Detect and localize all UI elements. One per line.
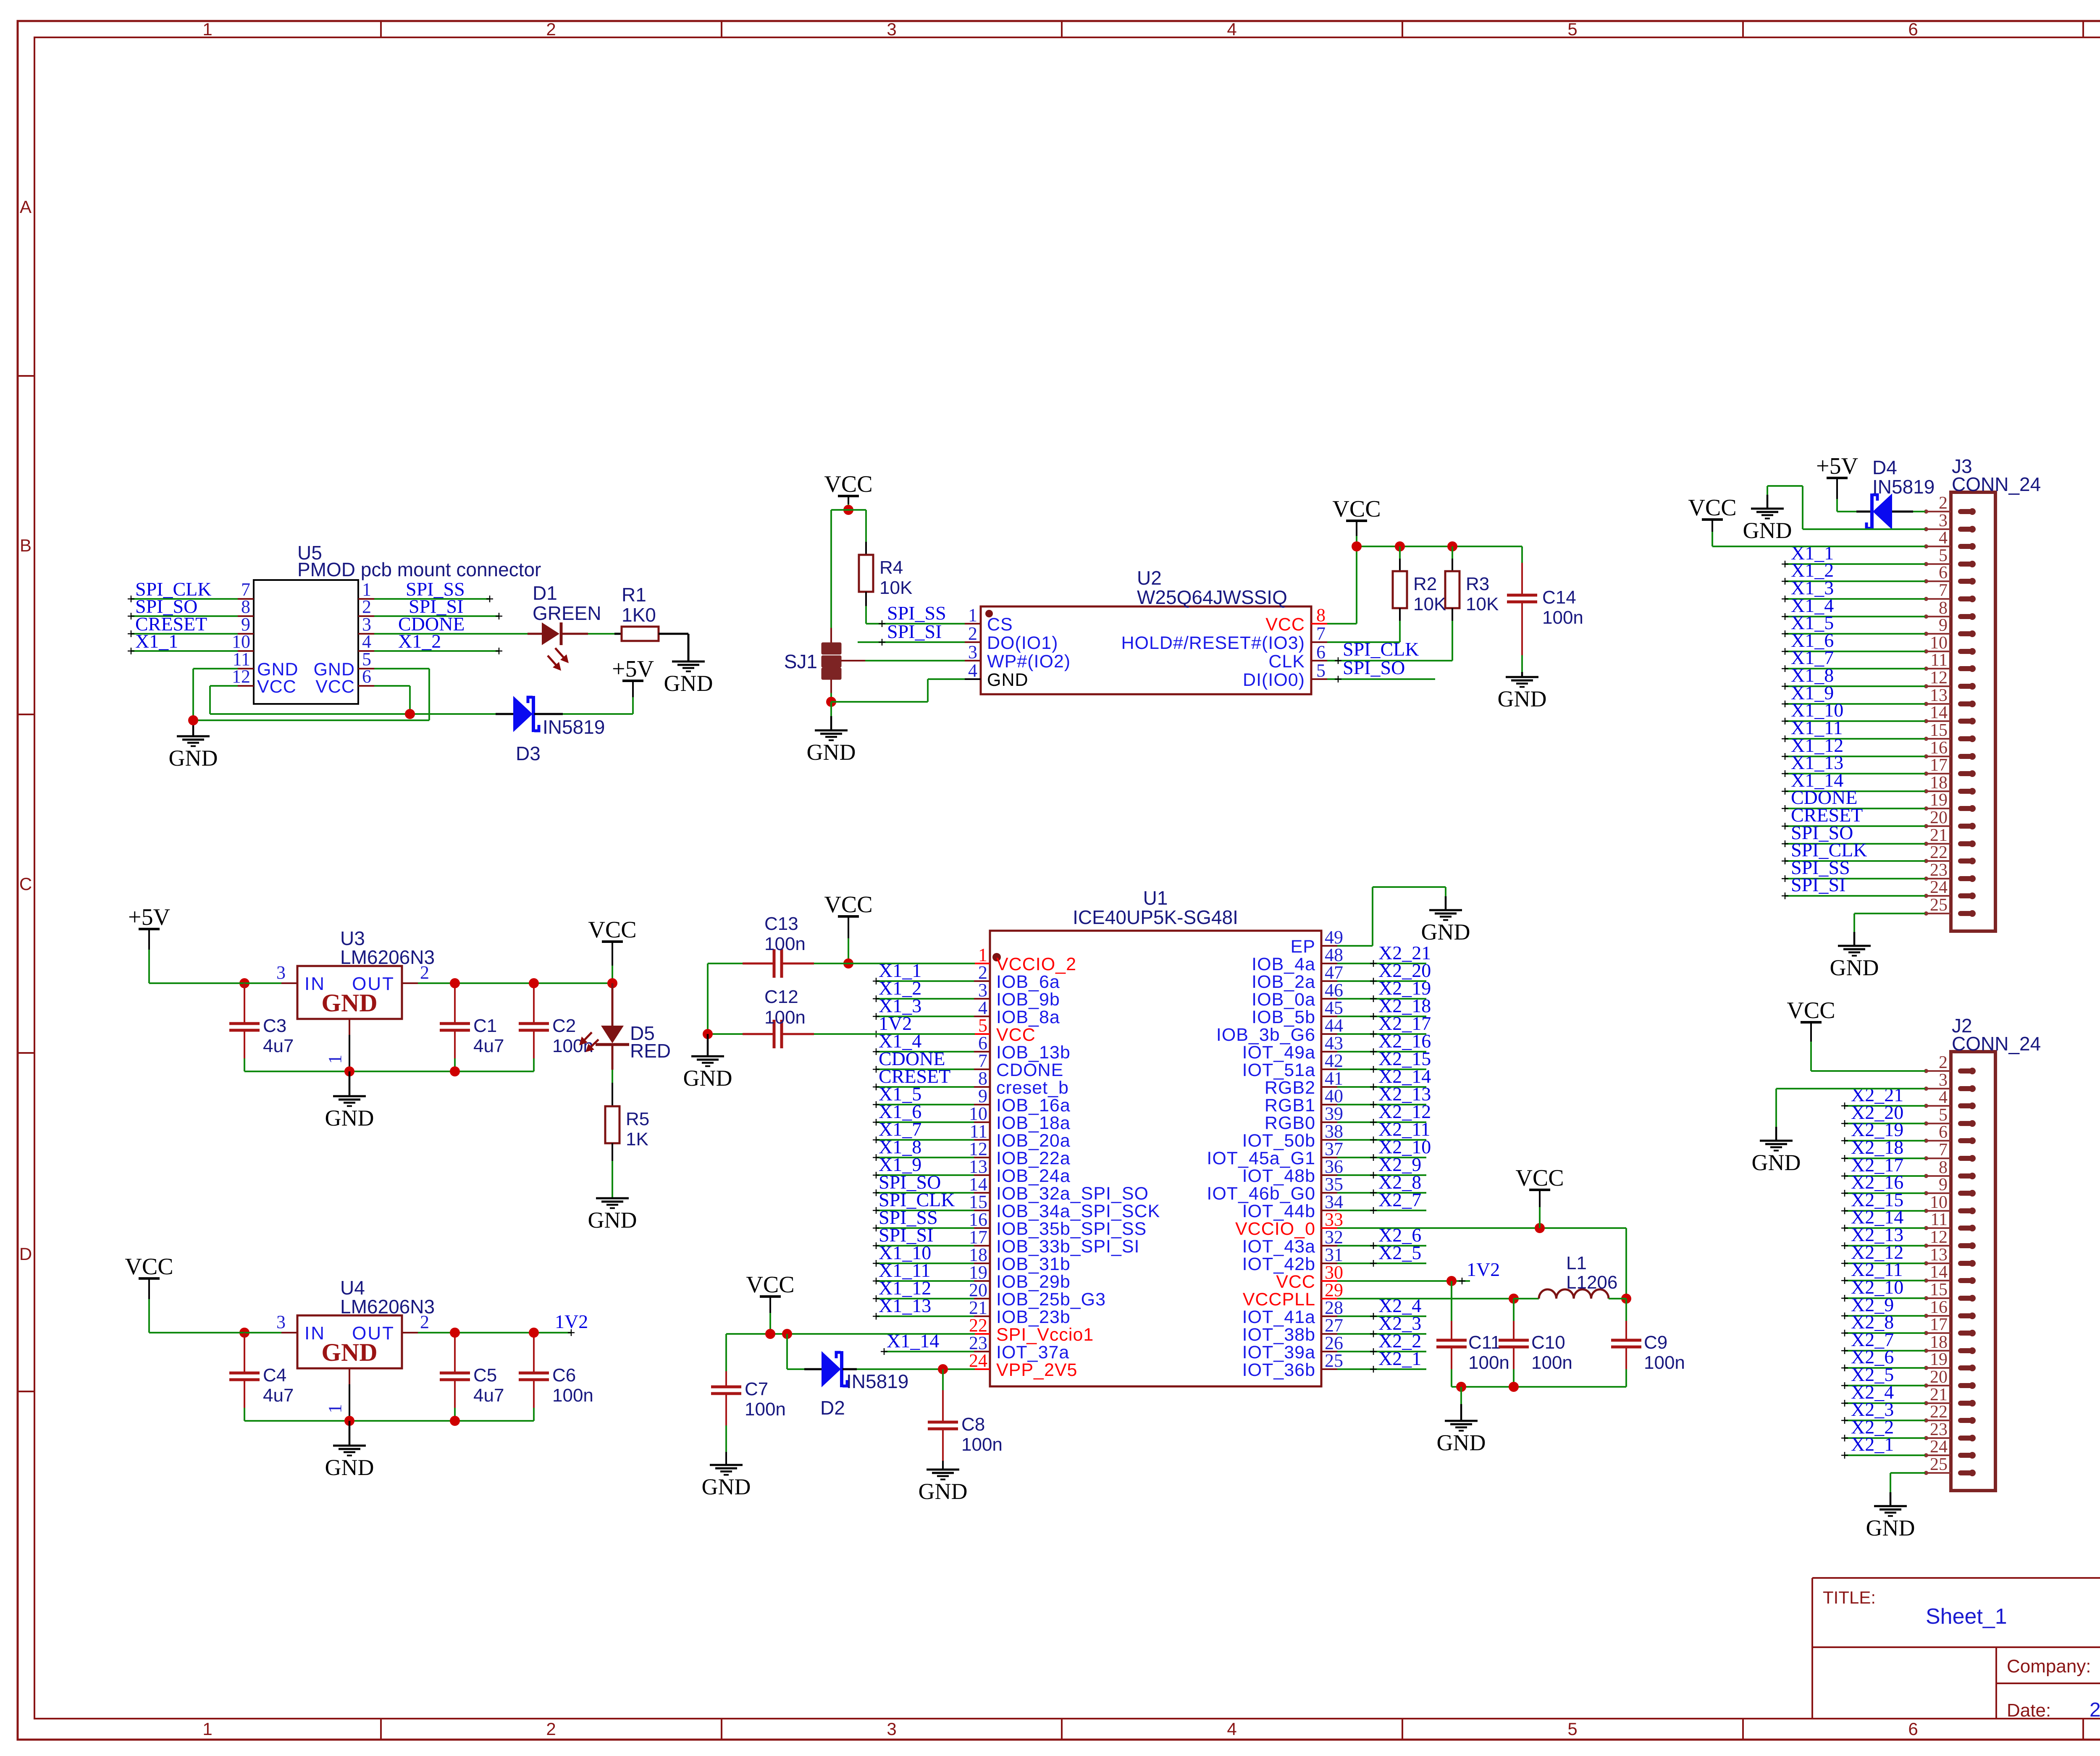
svg-text:6: 6 [1939,1123,1948,1142]
svg-text:VCCIO_0: VCCIO_0 [1235,1219,1315,1239]
svg-text:D3: D3 [516,743,541,764]
svg-text:VCCIO_2: VCCIO_2 [996,954,1076,974]
svg-text:7: 7 [1316,623,1326,644]
svg-text:14: 14 [1930,1263,1948,1282]
svg-text:IOB_33b_SPI_SI: IOB_33b_SPI_SI [996,1236,1140,1257]
svg-text:GREEN: GREEN [533,602,601,624]
svg-text:+5V: +5V [612,656,654,682]
svg-text:IOB_5b: IOB_5b [1252,1007,1315,1027]
svg-text:100n: 100n [764,1007,806,1028]
svg-text:10: 10 [1930,633,1948,653]
svg-text:IOT_48b: IOT_48b [1242,1166,1315,1186]
svg-text:39: 39 [1325,1103,1343,1124]
svg-text:13: 13 [1930,686,1948,705]
svg-text:6: 6 [362,666,371,687]
svg-text:IN5819: IN5819 [543,716,605,738]
svg-text:D4: D4 [1872,457,1897,478]
svg-text:C1: C1 [473,1016,497,1036]
svg-text:C5: C5 [473,1365,497,1386]
svg-text:4: 4 [1939,1088,1948,1107]
svg-text:4: 4 [1227,19,1236,39]
svg-text:41: 41 [1325,1068,1343,1089]
svg-text:45: 45 [1325,997,1343,1018]
svg-text:30: 30 [1325,1262,1343,1283]
svg-text:SPI_Vccio1: SPI_Vccio1 [996,1325,1094,1345]
svg-text:IOT_41a: IOT_41a [1242,1307,1315,1327]
svg-text:38: 38 [1325,1121,1343,1142]
svg-text:2: 2 [968,623,977,644]
svg-text:1: 1 [202,1719,212,1739]
svg-text:GND: GND [919,1479,968,1504]
svg-text:GND: GND [1498,686,1547,711]
svg-text:VPP_2V5: VPP_2V5 [996,1360,1077,1380]
svg-text:VCC: VCC [996,1025,1036,1045]
svg-text:IOB_9b: IOB_9b [996,990,1060,1010]
svg-text:WP#(IO2): WP#(IO2) [987,651,1071,672]
svg-text:C6: C6 [552,1365,576,1386]
svg-text:+5V: +5V [128,904,170,930]
svg-text:31: 31 [1325,1244,1343,1265]
svg-text:IOB_29b: IOB_29b [996,1272,1071,1292]
svg-text:X2_21: X2_21 [1378,942,1431,963]
svg-text:2: 2 [546,19,556,39]
svg-text:35: 35 [1325,1174,1343,1194]
svg-text:4u7: 4u7 [473,1385,504,1406]
svg-text:3: 3 [968,642,977,662]
svg-text:RGB1: RGB1 [1265,1095,1315,1116]
svg-text:CLK: CLK [1268,651,1305,672]
svg-text:2: 2 [546,1719,556,1739]
svg-text:8: 8 [1939,1158,1948,1177]
svg-text:23: 23 [1930,1420,1948,1439]
svg-text:14: 14 [1930,703,1948,722]
svg-text:IOB_31b: IOB_31b [996,1254,1071,1274]
svg-text:D1: D1 [533,582,557,604]
svg-text:+5V: +5V [1816,453,1858,479]
svg-text:25: 25 [1930,1455,1948,1474]
svg-text:VCC: VCC [1276,1272,1315,1292]
svg-text:D2: D2 [820,1397,845,1419]
svg-text:IOB_20a: IOB_20a [996,1131,1071,1151]
svg-text:7: 7 [1939,581,1948,600]
svg-text:VCC: VCC [1332,496,1381,522]
svg-text:26: 26 [1325,1333,1343,1353]
svg-text:R4: R4 [879,557,903,578]
svg-text:21: 21 [1930,826,1948,845]
svg-text:100n: 100n [1468,1352,1509,1373]
svg-text:6: 6 [1939,563,1948,583]
svg-text:A: A [20,197,31,217]
svg-text:4u7: 4u7 [263,1036,294,1056]
svg-text:GND: GND [325,1105,374,1131]
svg-text:IOB_32a_SPI_SO: IOB_32a_SPI_SO [996,1184,1149,1204]
svg-text:IOT_38b: IOT_38b [1242,1325,1315,1345]
svg-text:L1206: L1206 [1566,1272,1617,1293]
svg-text:8: 8 [1939,598,1948,618]
svg-text:100n: 100n [552,1385,593,1406]
svg-text:12: 12 [1930,1228,1948,1247]
svg-text:GND: GND [1743,518,1792,543]
svg-text:GND: GND [1830,955,1879,980]
svg-text:IOT_43a: IOT_43a [1242,1236,1315,1257]
svg-text:13: 13 [1930,1245,1948,1265]
svg-text:46: 46 [1325,980,1343,1000]
svg-text:D: D [19,1244,32,1264]
svg-text:17: 17 [1930,756,1948,775]
svg-text:GND: GND [683,1066,732,1091]
svg-text:12: 12 [232,666,250,687]
svg-text:GND: GND [987,670,1029,690]
svg-text:24: 24 [1930,1437,1948,1457]
svg-text:19: 19 [1930,790,1948,810]
svg-text:IOB_18a: IOB_18a [996,1113,1071,1133]
svg-text:IN5819: IN5819 [846,1370,908,1392]
svg-text:VCC: VCC [1515,1165,1564,1191]
svg-text:2: 2 [420,1312,429,1332]
svg-text:37: 37 [1325,1139,1343,1159]
svg-text:CONN_24: CONN_24 [1952,473,2041,495]
svg-text:GND: GND [664,671,713,696]
svg-text:L1: L1 [1566,1253,1587,1273]
svg-text:GND: GND [1421,919,1470,945]
svg-text:IOB_25b_G3: IOB_25b_G3 [996,1289,1106,1310]
svg-text:15: 15 [1930,1280,1948,1299]
svg-text:16: 16 [1930,738,1948,758]
svg-text:IOB_8a: IOB_8a [996,1007,1060,1027]
svg-text:4: 4 [968,660,977,681]
svg-text:VCC: VCC [588,917,636,943]
svg-text:4: 4 [1227,1719,1236,1739]
svg-text:IOT_45a_G1: IOT_45a_G1 [1207,1148,1315,1168]
svg-text:C4: C4 [263,1365,286,1386]
svg-text:9: 9 [1939,616,1948,635]
svg-text:Date:: Date: [2007,1700,2051,1721]
svg-text:IOT_42b: IOT_42b [1242,1254,1315,1274]
svg-text:3: 3 [276,962,286,983]
svg-text:100n: 100n [552,1036,593,1056]
svg-text:IOT_46b_G0: IOT_46b_G0 [1207,1184,1315,1204]
svg-text:IOB_23b: IOB_23b [996,1307,1071,1327]
svg-text:ICE40UP5K-SG48I: ICE40UP5K-SG48I [1073,906,1238,928]
svg-text:R3: R3 [1466,574,1489,594]
svg-text:4u7: 4u7 [263,1385,294,1406]
svg-text:GND: GND [807,740,856,765]
svg-text:2: 2 [1939,1053,1948,1072]
svg-text:C10: C10 [1531,1332,1565,1353]
svg-text:GND: GND [702,1474,751,1499]
svg-text:23: 23 [1930,861,1948,880]
svg-text:3: 3 [887,19,896,39]
svg-text:20: 20 [1930,1368,1948,1387]
svg-text:IOT_36b: IOT_36b [1242,1360,1315,1380]
svg-text:10K: 10K [879,577,912,598]
svg-text:IOT_44b: IOT_44b [1242,1201,1315,1221]
svg-text:DO(IO1): DO(IO1) [987,633,1058,653]
svg-text:R2: R2 [1413,574,1437,594]
svg-text:49: 49 [1325,927,1343,948]
svg-text:IN5819: IN5819 [1872,476,1935,498]
svg-text:B: B [20,535,31,555]
svg-text:C11: C11 [1468,1332,1501,1353]
svg-text:IOB_6a: IOB_6a [996,972,1060,992]
svg-text:32: 32 [1325,1227,1343,1247]
svg-text:2: 2 [420,962,429,983]
svg-text:11: 11 [1931,651,1948,670]
svg-text:3: 3 [887,1719,896,1739]
svg-text:6: 6 [1908,1719,1918,1739]
svg-text:22: 22 [1930,843,1948,862]
svg-text:22: 22 [1930,1402,1948,1422]
svg-text:IOT_50b: IOT_50b [1242,1131,1315,1151]
svg-text:C2: C2 [552,1016,576,1036]
svg-text:6: 6 [1908,19,1918,39]
svg-text:15: 15 [1930,721,1948,740]
svg-text:IOB_0a: IOB_0a [1252,990,1315,1010]
svg-text:U2: U2 [1137,567,1162,589]
svg-text:48: 48 [1325,945,1343,965]
svg-text:18: 18 [1930,773,1948,793]
svg-text:11: 11 [1931,1210,1948,1229]
svg-text:creset_b: creset_b [996,1078,1069,1098]
svg-text:VCC: VCC [1688,495,1736,521]
svg-text:7: 7 [1939,1140,1948,1160]
svg-text:IOB_4a: IOB_4a [1252,954,1315,974]
svg-text:43: 43 [1325,1033,1343,1053]
svg-text:VCC: VCC [315,677,355,697]
svg-text:25: 25 [1325,1350,1343,1371]
svg-text:4: 4 [1939,528,1948,548]
svg-text:19: 19 [1930,1350,1948,1369]
svg-text:PMOD pcb mount connector: PMOD pcb mount connector [297,559,541,580]
svg-text:GND: GND [325,1455,374,1480]
svg-text:1: 1 [202,19,212,39]
svg-text:GND: GND [321,1339,377,1366]
svg-text:EP: EP [1291,937,1315,957]
svg-text:C9: C9 [1644,1332,1667,1353]
svg-text:C12: C12 [764,987,798,1007]
svg-text:5: 5 [1939,1105,1948,1125]
svg-text:10K: 10K [1413,594,1446,614]
svg-text:RGB0: RGB0 [1265,1113,1315,1133]
svg-text:20: 20 [1930,808,1948,827]
svg-text:4u7: 4u7 [473,1036,504,1056]
svg-text:33: 33 [1325,1209,1343,1230]
svg-text:GND: GND [321,989,377,1017]
svg-text:R1: R1 [622,584,646,606]
svg-text:X1_13: X1_13 [879,1295,931,1316]
svg-text:VCC: VCC [824,892,872,918]
svg-text:U1: U1 [1143,887,1168,909]
svg-text:5: 5 [1567,19,1577,39]
svg-text:1: 1 [325,1055,345,1064]
svg-text:SPI_SI: SPI_SI [887,621,942,642]
svg-text:100n: 100n [764,934,806,954]
svg-text:HOLD#/RESET#(IO3): HOLD#/RESET#(IO3) [1121,633,1305,653]
svg-text:12: 12 [1930,668,1948,688]
svg-text:1K: 1K [626,1129,648,1150]
svg-text:5: 5 [1567,1719,1577,1739]
svg-text:CS: CS [987,614,1013,635]
svg-text:C7: C7 [745,1379,768,1399]
svg-text:TITLE:: TITLE: [1823,1588,1876,1607]
svg-text:SPI_SI: SPI_SI [1791,874,1845,895]
svg-text:24: 24 [969,1350,987,1371]
svg-text:IOT_51a: IOT_51a [1242,1060,1315,1080]
svg-text:X1_1: X1_1 [135,630,178,652]
svg-text:40: 40 [1325,1086,1343,1106]
svg-text:DI(IO0): DI(IO0) [1243,670,1305,690]
svg-text:IOB_22a: IOB_22a [996,1148,1071,1168]
svg-text:5: 5 [1939,546,1948,565]
svg-text:VCCPLL: VCCPLL [1243,1289,1315,1310]
svg-text:VCC: VCC [125,1254,173,1280]
svg-text:8: 8 [1316,605,1326,625]
svg-text:VCC: VCC [1787,997,1835,1024]
svg-text:3: 3 [276,1312,286,1332]
svg-text:2: 2 [1939,493,1948,513]
svg-text:VCC: VCC [1265,614,1305,635]
svg-text:10K: 10K [1466,594,1499,614]
svg-text:28: 28 [1325,1297,1343,1318]
svg-text:RGB2: RGB2 [1265,1078,1315,1098]
svg-text:GND: GND [1437,1430,1486,1455]
svg-text:C14: C14 [1542,587,1576,608]
svg-text:34: 34 [1325,1192,1343,1212]
svg-text:100n: 100n [745,1399,786,1420]
svg-text:10: 10 [1930,1193,1948,1212]
svg-text:SPI_SO: SPI_SO [1343,657,1405,678]
svg-text:16: 16 [1930,1298,1948,1317]
svg-text:GND: GND [169,745,218,771]
svg-text:CDONE: CDONE [996,1060,1063,1080]
svg-text:W25Q64JWSSIQ: W25Q64JWSSIQ [1137,586,1287,608]
svg-text:VCC: VCC [824,471,872,497]
svg-text:C: C [19,874,32,894]
svg-text:17: 17 [1930,1315,1948,1334]
svg-text:IOT_39a: IOT_39a [1242,1342,1315,1362]
svg-text:27: 27 [1325,1315,1343,1336]
svg-text:6: 6 [1316,642,1326,662]
svg-text:C13: C13 [764,913,798,934]
svg-text:Company:: Company: [2007,1656,2091,1677]
svg-text:CONN_24: CONN_24 [1952,1033,2041,1055]
svg-text:5: 5 [1316,660,1326,681]
svg-text:GND: GND [1866,1515,1915,1541]
svg-text:3: 3 [1939,1071,1948,1090]
svg-text:42: 42 [1325,1050,1343,1071]
svg-text:44: 44 [1325,1015,1343,1036]
svg-text:47: 47 [1325,962,1343,983]
svg-text:18: 18 [1930,1333,1948,1352]
svg-text:IOT_37a: IOT_37a [996,1342,1069,1362]
svg-text:SJ1: SJ1 [784,651,817,672]
svg-text:100n: 100n [961,1434,1003,1455]
svg-text:GND: GND [588,1207,637,1233]
svg-text:IOB_34a_SPI_SCK: IOB_34a_SPI_SCK [996,1201,1160,1221]
svg-text:IOB_3b_G6: IOB_3b_G6 [1216,1025,1315,1045]
svg-text:3: 3 [1939,511,1948,530]
svg-text:VCC: VCC [257,677,297,697]
svg-text:X2_1: X2_1 [1851,1433,1894,1455]
svg-text:21: 21 [1930,1385,1948,1404]
svg-text:9: 9 [1939,1175,1948,1194]
svg-text:1V2: 1V2 [555,1311,588,1332]
svg-text:IOT_49a: IOT_49a [1242,1042,1315,1063]
svg-text:1V2: 1V2 [1467,1259,1500,1280]
svg-text:100n: 100n [1542,607,1583,628]
svg-text:VCC: VCC [746,1272,794,1298]
svg-text:IOB_35b_SPI_SS: IOB_35b_SPI_SS [996,1219,1147,1239]
svg-text:IOB_2a: IOB_2a [1252,972,1315,992]
svg-text:C3: C3 [263,1016,286,1036]
svg-text:36: 36 [1325,1156,1343,1177]
svg-text:C8: C8 [961,1414,985,1435]
svg-text:2022-09-18: 2022-09-18 [2089,1699,2100,1721]
svg-text:25: 25 [1930,895,1948,915]
svg-text:IOB_24a: IOB_24a [996,1166,1071,1186]
svg-text:24: 24 [1930,878,1948,897]
svg-text:GND: GND [1752,1150,1801,1175]
svg-text:100n: 100n [1531,1352,1572,1373]
svg-text:R5: R5 [626,1109,649,1129]
svg-text:29: 29 [1325,1280,1343,1300]
svg-text:RED: RED [630,1040,671,1062]
svg-text:IOB_13b: IOB_13b [996,1042,1071,1063]
svg-text:100n: 100n [1644,1352,1685,1373]
svg-text:1: 1 [325,1404,345,1413]
svg-text:IOB_16a: IOB_16a [996,1095,1071,1116]
svg-text:1: 1 [968,605,977,625]
svg-text:1K0: 1K0 [622,604,656,626]
svg-text:Sheet_1: Sheet_1 [1926,1604,2007,1629]
